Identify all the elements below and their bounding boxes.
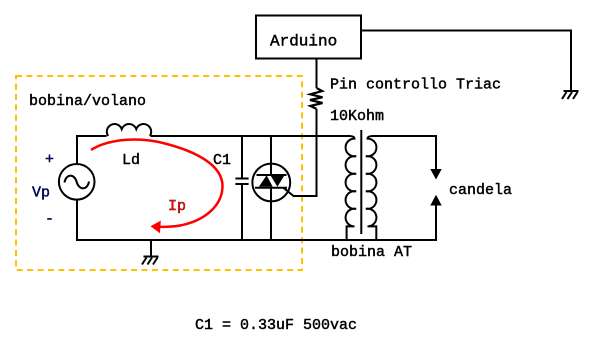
svg-text:Ld: Ld: [122, 152, 140, 169]
spark gap candela upper arrow: [430, 169, 441, 180]
ground chassis right: [562, 91, 579, 99]
triac Q1: [252, 136, 293, 240]
current loop Ip red arrow: [91, 140, 223, 227]
transformer T1 secondary winding: [366, 136, 377, 240]
svg-text:Arduino: Arduino: [270, 33, 337, 51]
resistor R1: [310, 88, 323, 109]
spark gap candela lower arrow: [430, 195, 441, 206]
ground bottom: [142, 240, 159, 265]
svg-text:+: +: [45, 152, 54, 169]
svg-text:Pin controllo Triac: Pin controllo Triac: [330, 77, 501, 94]
svg-text:bobina AT: bobina AT: [331, 244, 412, 261]
svg-text:C1: C1: [213, 152, 231, 169]
inductor Ld: [107, 124, 151, 136]
transformer T1 primary winding: [346, 136, 357, 240]
wire Arduino right to chassis ground: [361, 31, 571, 92]
wire secondary top to spark gap: [373, 136, 437, 170]
svg-text:Vp: Vp: [32, 185, 50, 202]
wire R1 to triac gate: [293, 109, 317, 196]
svg-text:candela: candela: [449, 182, 512, 199]
wire inductor to transformer: [151, 135, 351, 137]
wire source bottom: [76, 200, 78, 240]
transformer core: [360, 130, 362, 234]
block U1 Arduino: [256, 16, 361, 59]
svg-text:Ip: Ip: [168, 198, 186, 215]
svg-text:10Kohm: 10Kohm: [330, 108, 384, 125]
wire spark gap bottom: [435, 205, 437, 241]
svg-text:C1 = 0.33uF 500vac: C1 = 0.33uF 500vac: [195, 317, 357, 334]
dashed enclosure bobina/volano: [16, 76, 302, 270]
wire top net: [77, 136, 107, 164]
capacitor C1: [235, 136, 248, 240]
svg-text:-: -: [45, 211, 54, 228]
wire bottom net: [76, 239, 437, 241]
AC source Vp: [59, 164, 95, 200]
svg-text:bobina/volano: bobina/volano: [29, 93, 146, 110]
wire Arduino bottom to resistor R1: [316, 59, 318, 89]
